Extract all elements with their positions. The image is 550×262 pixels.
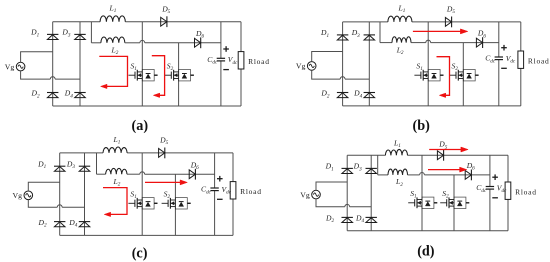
wire node A vertical (141, 22, 143, 106)
transistor S2 (450, 61, 479, 81)
svg-text:(a): (a) (132, 118, 149, 134)
label plus (492, 174, 498, 180)
wire source bottom lead (316, 199, 371, 207)
wire bottom rail (347, 230, 508, 232)
inductor L2 (392, 37, 411, 56)
wire bridge right leg (368, 22, 370, 106)
diode D4 (355, 214, 377, 225)
label minus (492, 197, 498, 199)
label Vdc (506, 54, 516, 65)
inductor L1 (385, 138, 407, 155)
wire S2 drain vertical (174, 174, 176, 235)
current path arrow 2 (152, 56, 165, 98)
diode D2 (320, 89, 348, 100)
wire source top lead (316, 182, 347, 190)
label Vdc (497, 183, 507, 194)
AC source Vg (296, 62, 316, 71)
diode D5 (161, 4, 171, 27)
svg-text:Rload: Rload (248, 57, 270, 66)
label plus (501, 45, 507, 51)
wire source top lead (28, 182, 59, 191)
wire bottom rail (343, 105, 521, 107)
inductor L2 (101, 37, 125, 56)
diode D4 (68, 218, 90, 229)
diode D3 (61, 28, 85, 40)
transistor S1 (129, 61, 158, 81)
label minus (217, 198, 223, 200)
transistor S2 (165, 61, 194, 81)
label Vdc (222, 185, 232, 196)
diode D2 (325, 214, 353, 225)
wire hop over node A (426, 40, 431, 42)
label minus (501, 67, 507, 69)
wire crossover hop (340, 77, 345, 79)
wire hop over node A (420, 172, 425, 174)
wire L2 branch vertical (97, 153, 106, 174)
circuit (c) (13, 135, 262, 262)
transistor S2 (440, 189, 469, 209)
wire source top lead (21, 52, 53, 63)
diode D1 (37, 160, 65, 172)
wire hop over node A (140, 172, 145, 174)
diode D5 (445, 5, 455, 28)
capacitor Cdc (476, 155, 494, 230)
diode D4 (64, 89, 86, 100)
diode D3 (66, 160, 90, 172)
wire L2 branch vertical (91, 22, 101, 43)
diode D5 (159, 136, 169, 159)
resistor Rload (230, 153, 262, 236)
wire source bottom lead (28, 200, 84, 208)
caption (b) (413, 118, 431, 134)
label plus (217, 176, 223, 182)
wire L2 branch vertical (378, 155, 388, 175)
label Vdc (228, 55, 238, 66)
diode D6 (476, 29, 486, 48)
wire source bottom lead (312, 70, 370, 79)
wire node A vertical (427, 22, 429, 106)
wire S2 drain vertical (453, 175, 455, 231)
inductor L1 (100, 4, 125, 22)
svg-text:Vg: Vg (13, 191, 23, 200)
wire bridge left leg (59, 153, 61, 236)
svg-text:Rload: Rload (515, 187, 537, 196)
circuit (b) (296, 4, 550, 135)
svg-text:Rload: Rload (528, 56, 550, 65)
svg-text:(d): (d) (417, 244, 435, 260)
diode D6 (189, 160, 199, 179)
current path arrow 1 (103, 188, 127, 217)
label minus (223, 69, 229, 71)
svg-text:(b): (b) (413, 118, 431, 134)
diode D5 (437, 140, 447, 161)
current path arrow 1 (413, 29, 468, 34)
inductor L1 (103, 135, 127, 153)
wire L2 to diode D6 (411, 42, 499, 44)
AC source Vg (5, 62, 25, 71)
diode D2 (31, 89, 59, 100)
wire bridge left leg (52, 22, 54, 106)
inductor L2 (388, 169, 408, 188)
wire crossover hop (50, 77, 55, 79)
wire L2 to diode D6 (125, 42, 221, 44)
transistor S1 (414, 61, 443, 81)
inductor L1 (388, 4, 412, 22)
diode D6 (195, 29, 205, 48)
svg-text:Vg: Vg (5, 62, 15, 71)
diode D3 (351, 28, 375, 40)
AC source Vg (13, 191, 33, 200)
wire source top lead (312, 52, 343, 62)
svg-text:Vg: Vg (300, 190, 310, 199)
wire bottom rail (53, 105, 241, 107)
caption (c) (132, 246, 148, 262)
diode D1 (325, 162, 353, 174)
wire L2 to diode D6 (408, 174, 490, 176)
svg-text:(c): (c) (132, 246, 148, 262)
wire L2 branch vertical (380, 22, 392, 43)
wire top rail (53, 21, 241, 23)
resistor Rload (238, 22, 270, 106)
diode D1 (320, 28, 348, 40)
wire crossover hop (57, 205, 62, 207)
circuit (d) (300, 138, 537, 259)
diode D1 (30, 28, 58, 40)
wire top rail (343, 21, 521, 23)
caption (d) (417, 244, 435, 260)
caption (a) (132, 118, 149, 134)
wire L2 to diode D6 (127, 173, 215, 175)
circuit (a) (5, 4, 270, 135)
label plus (223, 46, 229, 52)
diode D3 (353, 162, 377, 174)
capacitor Cdc (207, 22, 225, 106)
diode D6 (465, 161, 475, 180)
current path arrow 1 (429, 147, 468, 152)
wire crossover hop (345, 204, 350, 206)
wire bridge right leg (79, 22, 81, 106)
transistor S2 (162, 190, 191, 210)
transistor S1 (128, 190, 157, 210)
wire top rail (347, 154, 508, 156)
wire node A vertical (141, 153, 143, 236)
wire top rail (60, 152, 233, 154)
wire bridge right leg (370, 155, 372, 230)
capacitor Cdc (485, 22, 503, 106)
capacitor Cdc (201, 153, 219, 236)
wire source bottom lead (21, 71, 80, 79)
wire S2 drain vertical (178, 43, 180, 106)
wire S2 drain vertical (462, 43, 464, 106)
wire bridge left leg (342, 22, 344, 106)
transistor S1 (408, 189, 437, 209)
current path arrow 1 (99, 56, 127, 88)
AC source Vg (300, 190, 320, 199)
resistor Rload (518, 22, 550, 106)
current path arrow 2 (428, 167, 467, 172)
resistor Rload (505, 155, 537, 230)
diode D4 (353, 89, 375, 100)
wire bridge left leg (346, 155, 348, 230)
wire hop over node A (140, 40, 145, 42)
wire node A vertical (421, 155, 423, 230)
svg-text:Rload: Rload (240, 187, 262, 196)
inductor L2 (106, 168, 127, 187)
wire bottom rail (60, 234, 233, 236)
current path arrow 2 (145, 180, 187, 185)
svg-text:Vg: Vg (296, 62, 306, 71)
wire bridge right leg (84, 153, 86, 236)
current path arrow 2 (437, 57, 450, 98)
diode D2 (38, 218, 66, 229)
